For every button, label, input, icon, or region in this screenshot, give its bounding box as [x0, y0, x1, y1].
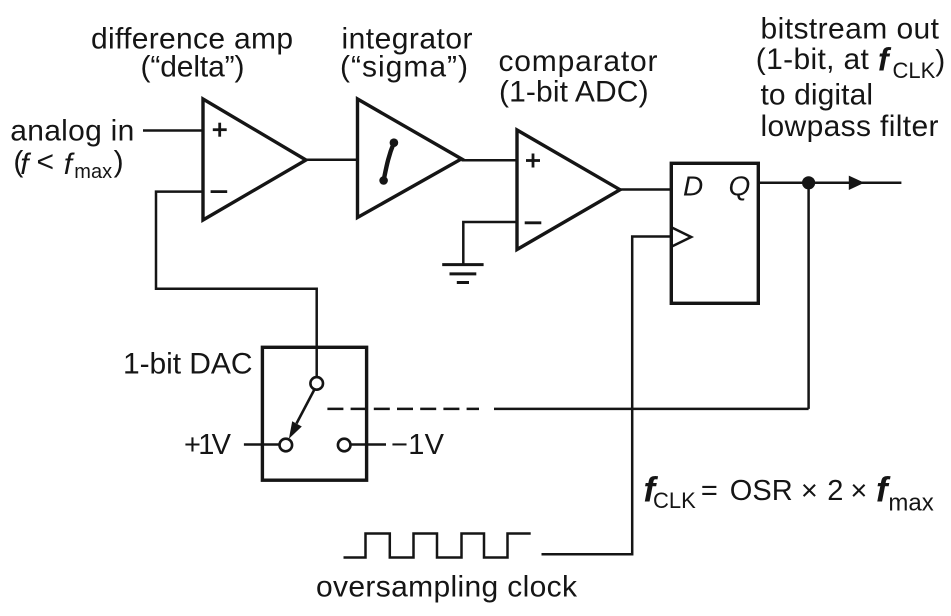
- svg-text:×: ×: [850, 475, 867, 507]
- svg-text:analog in: analog in: [10, 115, 134, 148]
- wire: dashed control line to DAC switch: [327, 408, 479, 411]
- svg-text:oversampling clock: oversampling clock: [316, 571, 578, 604]
- plus input label: [526, 154, 540, 168]
- plus input label: [213, 123, 227, 137]
- comparator U3 triangle: [517, 130, 620, 250]
- flip-flop U4 box: [671, 163, 758, 303]
- label: integrator ("sigma"): [340, 22, 473, 83]
- svg-text:Q: Q: [729, 171, 751, 202]
- +1V terminal: [280, 439, 293, 452]
- wire: feedback horizontal solid part: [494, 408, 809, 411]
- svg-text:): ): [935, 45, 945, 78]
- svg-text:1-bit DAC: 1-bit DAC: [123, 347, 253, 380]
- label: (f < fmax): [13, 145, 123, 183]
- wire: -1V stub: [351, 443, 386, 446]
- integral sign: [384, 143, 394, 181]
- svg-text:=: =: [701, 475, 718, 507]
- clock input edge triangle: [671, 227, 691, 246]
- svg-text:): ): [114, 145, 124, 178]
- wire: integrator output to comparator + input: [462, 159, 518, 162]
- svg-text:×: ×: [801, 475, 818, 507]
- svg-text:comparator: comparator: [499, 45, 658, 78]
- minus input label: [525, 221, 542, 224]
- svg-text:bitstream out: bitstream out: [761, 13, 940, 46]
- wire: comparator - input to ground: [463, 222, 517, 265]
- svg-text:max: max: [74, 161, 112, 183]
- wire: diff amp - input feedback path: [156, 192, 317, 378]
- wire: Q output: [758, 182, 901, 185]
- switch pivot terminal: [310, 377, 323, 390]
- wire: comparator output to D input: [620, 188, 671, 191]
- svg-text:2: 2: [827, 475, 843, 507]
- wire: +1V stub: [244, 443, 279, 446]
- wire: feedback from junction down: [807, 183, 810, 409]
- svg-text:lowpass filter: lowpass filter: [761, 110, 939, 143]
- -1V terminal: [338, 439, 351, 452]
- svg-text:−1V: −1V: [391, 429, 445, 461]
- svg-text:<: <: [37, 145, 55, 178]
- oversampling clock waveform: [344, 534, 531, 558]
- op-amp U1 difference amp triangle: [203, 99, 306, 220]
- svg-text:(“sigma”): (“sigma”): [340, 51, 468, 84]
- svg-text:CLK: CLK: [893, 58, 936, 83]
- switch arm with arrow: [297, 390, 315, 424]
- svg-text:OSR: OSR: [730, 475, 793, 507]
- wire: diff amp output to integrator: [306, 159, 358, 162]
- label: comparator (1-bit ADC): [499, 45, 658, 108]
- svg-text:to digital: to digital: [761, 78, 874, 111]
- svg-text:(1-bit ADC): (1-bit ADC): [499, 75, 649, 108]
- svg-text:+1V: +1V: [184, 429, 232, 461]
- op-amp U2 integrator triangle: [358, 99, 462, 218]
- label: difference amp ("delta"): [91, 22, 293, 83]
- label: fCLK = OSR x 2 x fmax: [644, 470, 934, 516]
- minus input label: [211, 190, 228, 193]
- 1-bit DAC box: [262, 347, 366, 480]
- svg-text:max: max: [888, 490, 933, 517]
- arrowhead on bitstream out: [849, 176, 865, 190]
- svg-text:D: D: [683, 171, 703, 202]
- label: bitstream out (1-bit, at fCLK) to digital lowpass filter: [756, 13, 945, 144]
- wire: analog in to + input: [143, 129, 203, 132]
- svg-text:(“delta”): (“delta”): [141, 51, 245, 84]
- wire: clock to flip-flop clock input: [542, 237, 672, 555]
- svg-text:CLK: CLK: [653, 488, 696, 513]
- svg-text:(1-bit, at: (1-bit, at: [756, 43, 870, 76]
- ground symbol: [442, 265, 483, 283]
- junction dot on bitstream: [802, 176, 815, 189]
